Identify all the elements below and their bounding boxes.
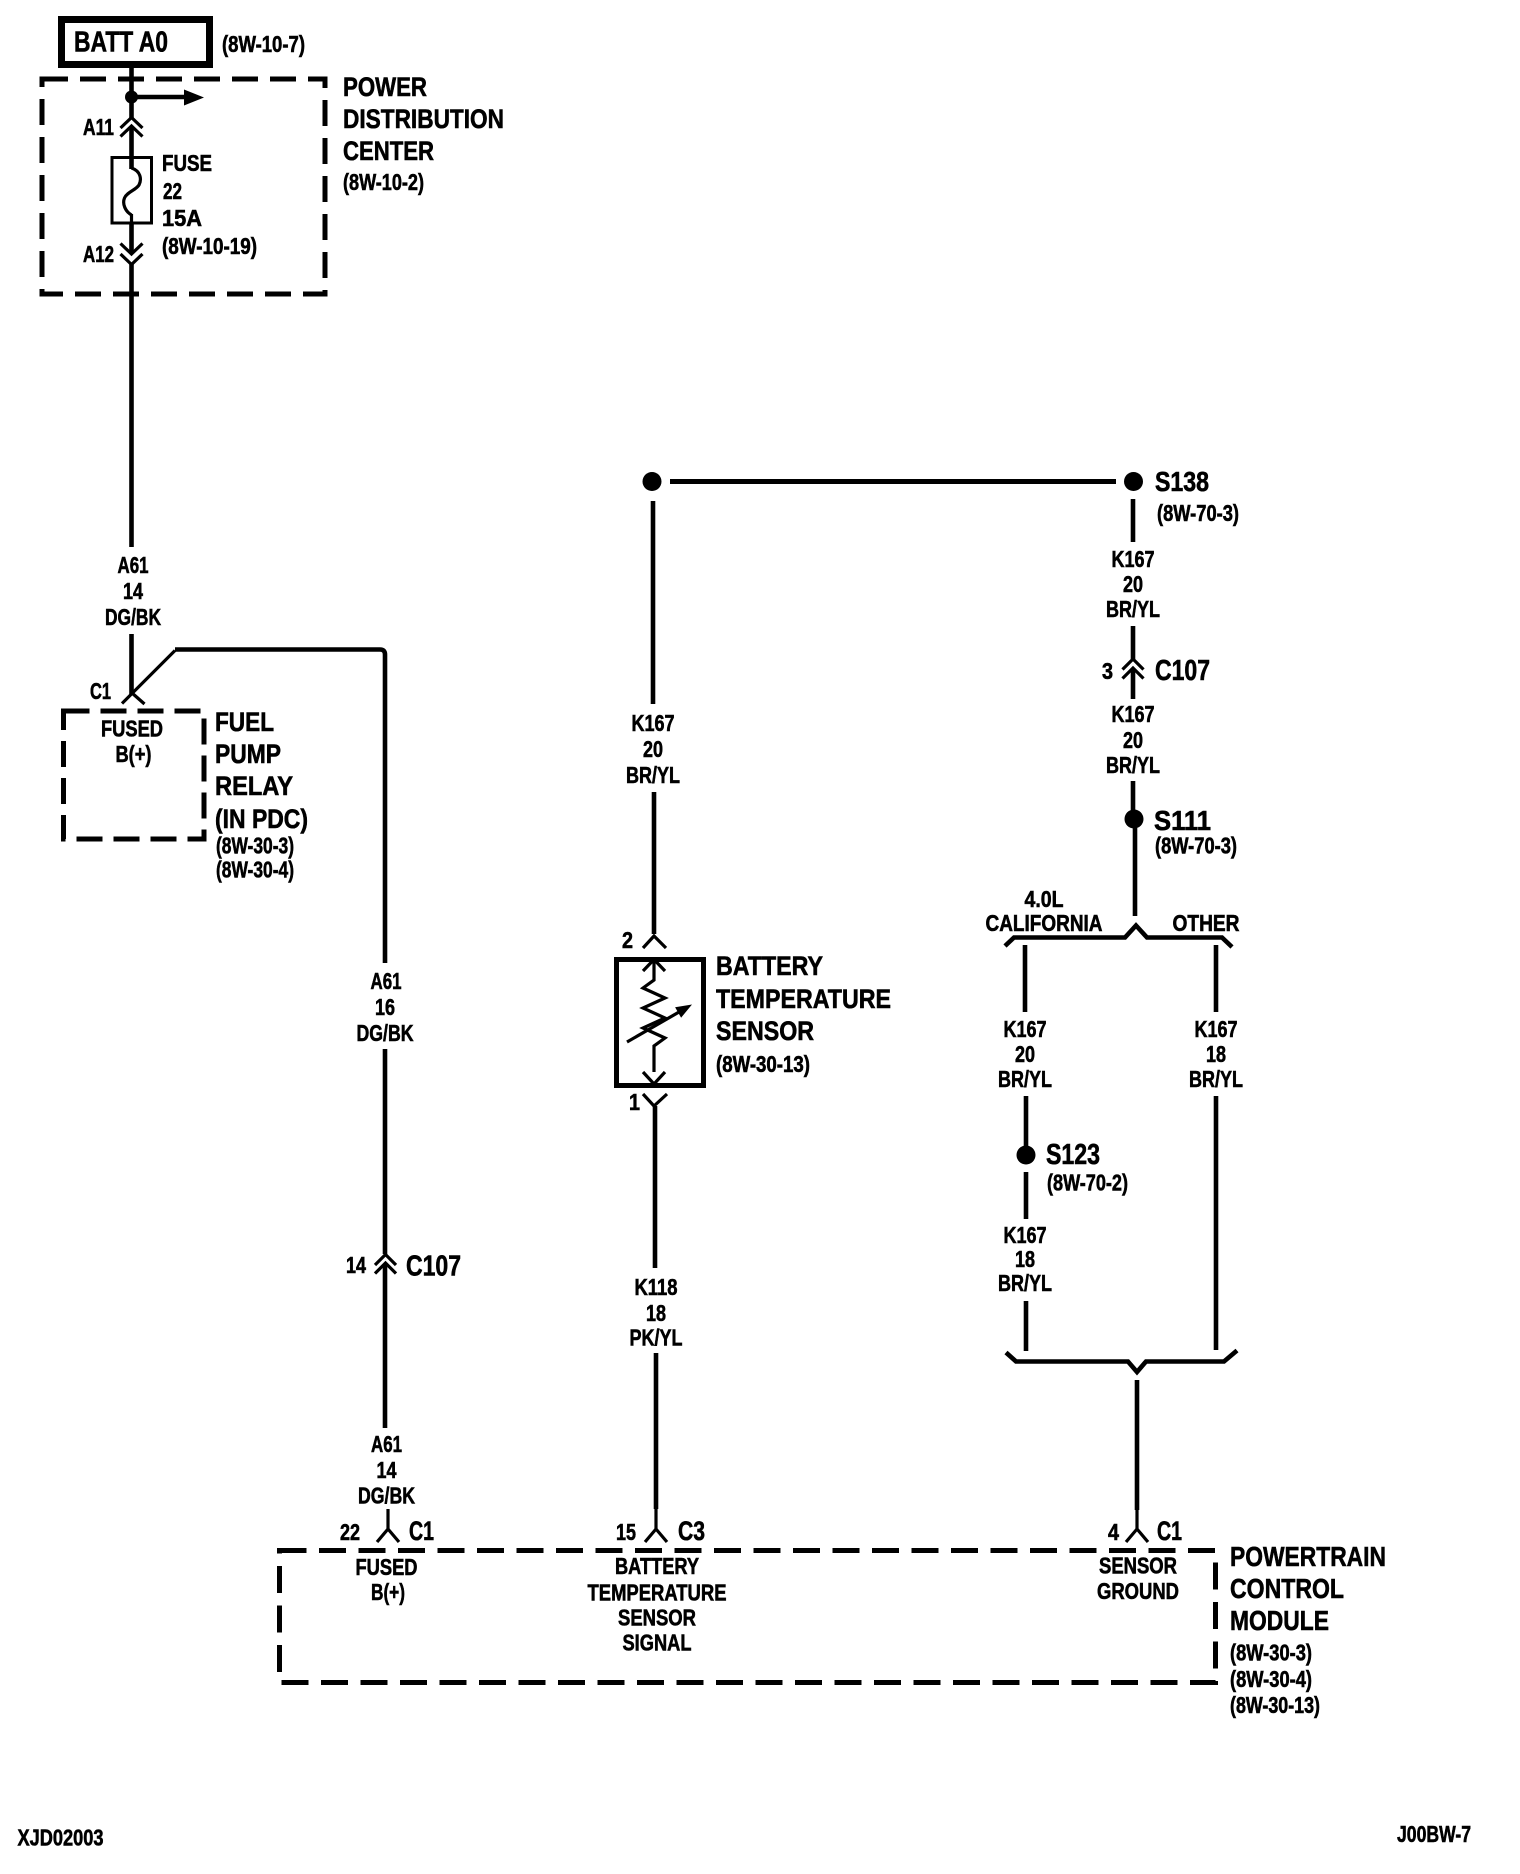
svg-text:C107: C107 (1155, 655, 1210, 687)
svg-text:BR/YL: BR/YL (998, 1270, 1052, 1296)
svg-text:PUMP: PUMP (215, 739, 281, 769)
svg-text:(8W-70-3): (8W-70-3) (1157, 500, 1239, 526)
svg-text:DG/BK: DG/BK (105, 604, 161, 630)
svg-text:K167: K167 (1112, 546, 1155, 572)
svg-text:BATT A0: BATT A0 (74, 27, 168, 59)
svg-text:(8W-30-13): (8W-30-13) (716, 1051, 810, 1077)
svg-text:B(+): B(+) (116, 741, 152, 767)
svg-text:K167: K167 (1004, 1016, 1047, 1042)
svg-text:CALIFORNIA: CALIFORNIA (986, 910, 1103, 936)
svg-text:POWER: POWER (343, 72, 427, 102)
svg-text:SENSOR: SENSOR (1099, 1553, 1177, 1579)
svg-text:(8W-30-13): (8W-30-13) (1230, 1692, 1320, 1718)
svg-text:22: 22 (340, 1519, 360, 1545)
svg-text:SENSOR: SENSOR (618, 1605, 696, 1631)
svg-text:20: 20 (643, 736, 663, 762)
svg-text:(8W-10-19): (8W-10-19) (162, 233, 257, 259)
svg-text:RELAY: RELAY (215, 771, 293, 801)
svg-text:18: 18 (1015, 1246, 1035, 1272)
svg-text:A12: A12 (83, 241, 114, 267)
svg-text:C3: C3 (678, 1516, 705, 1546)
svg-text:OTHER: OTHER (1173, 910, 1240, 936)
svg-text:B(+): B(+) (371, 1579, 405, 1605)
svg-text:20: 20 (1123, 727, 1143, 753)
svg-text:A61: A61 (371, 968, 402, 994)
svg-text:K167: K167 (1195, 1016, 1238, 1042)
svg-text:A61: A61 (118, 552, 149, 578)
svg-text:18: 18 (646, 1300, 666, 1326)
svg-text:K167: K167 (632, 710, 675, 736)
svg-text:A11: A11 (83, 114, 114, 140)
svg-text:CENTER: CENTER (343, 136, 434, 166)
svg-text:SENSOR: SENSOR (716, 1016, 814, 1046)
svg-text:15: 15 (616, 1519, 636, 1545)
svg-text:BR/YL: BR/YL (626, 762, 680, 788)
svg-text:DG/BK: DG/BK (358, 1483, 415, 1509)
svg-text:20: 20 (1123, 571, 1143, 597)
svg-text:S123: S123 (1046, 1139, 1100, 1171)
svg-text:14: 14 (346, 1252, 366, 1278)
svg-text:16: 16 (375, 994, 395, 1020)
svg-text:XJD02003: XJD02003 (18, 1825, 104, 1851)
svg-text:S138: S138 (1155, 466, 1209, 497)
svg-text:FUEL: FUEL (215, 707, 274, 737)
svg-text:C1: C1 (90, 678, 111, 704)
svg-text:18: 18 (1206, 1041, 1226, 1067)
svg-text:20: 20 (1015, 1041, 1035, 1067)
svg-text:(IN PDC): (IN PDC) (215, 804, 308, 834)
svg-text:(8W-70-2): (8W-70-2) (1047, 1170, 1128, 1196)
svg-text:TEMPERATURE: TEMPERATURE (716, 984, 891, 1014)
svg-text:S111: S111 (1154, 805, 1211, 836)
svg-text:3: 3 (1102, 658, 1113, 684)
svg-text:J00BW-7: J00BW-7 (1397, 1821, 1471, 1847)
svg-text:K118: K118 (635, 1274, 678, 1300)
svg-text:14: 14 (377, 1457, 397, 1483)
svg-text:(8W-30-3): (8W-30-3) (1230, 1640, 1312, 1666)
svg-text:DG/BK: DG/BK (357, 1020, 414, 1046)
svg-text:FUSED: FUSED (356, 1554, 418, 1580)
svg-text:22: 22 (163, 178, 182, 204)
svg-text:(8W-30-3): (8W-30-3) (216, 833, 294, 859)
svg-text:BR/YL: BR/YL (1106, 596, 1160, 622)
svg-text:C107: C107 (406, 1251, 461, 1283)
svg-text:K167: K167 (1112, 701, 1155, 727)
svg-text:TEMPERATURE: TEMPERATURE (588, 1580, 727, 1606)
svg-text:(8W-10-2): (8W-10-2) (343, 169, 424, 195)
svg-text:2: 2 (622, 927, 633, 953)
svg-text:BR/YL: BR/YL (1189, 1066, 1243, 1092)
svg-text:BATTERY: BATTERY (615, 1553, 699, 1579)
svg-text:BR/YL: BR/YL (998, 1066, 1052, 1092)
svg-text:15A: 15A (162, 205, 202, 231)
svg-text:4.0L: 4.0L (1025, 886, 1064, 912)
svg-text:CONTROL: CONTROL (1230, 1573, 1344, 1604)
svg-text:GROUND: GROUND (1097, 1578, 1179, 1604)
svg-text:(8W-10-7): (8W-10-7) (222, 31, 305, 57)
svg-text:C1: C1 (1157, 1516, 1182, 1546)
svg-text:(8W-70-3): (8W-70-3) (1155, 833, 1237, 859)
svg-text:FUSE: FUSE (162, 150, 212, 176)
svg-text:POWERTRAIN: POWERTRAIN (1230, 1541, 1386, 1572)
svg-text:(8W-30-4): (8W-30-4) (216, 857, 294, 883)
svg-text:4: 4 (1108, 1519, 1119, 1545)
svg-text:K167: K167 (1004, 1222, 1047, 1248)
svg-text:(8W-30-4): (8W-30-4) (1230, 1666, 1312, 1692)
svg-text:C1: C1 (409, 1516, 434, 1546)
svg-text:MODULE: MODULE (1230, 1605, 1329, 1636)
svg-text:A61: A61 (371, 1431, 402, 1457)
svg-text:14: 14 (123, 578, 143, 604)
svg-text:PK/YL: PK/YL (630, 1325, 683, 1351)
svg-text:1: 1 (629, 1089, 640, 1115)
svg-text:DISTRIBUTION: DISTRIBUTION (343, 104, 504, 134)
svg-text:BATTERY: BATTERY (716, 951, 823, 981)
svg-text:SIGNAL: SIGNAL (623, 1630, 692, 1656)
svg-text:BR/YL: BR/YL (1106, 752, 1160, 778)
svg-text:FUSED: FUSED (101, 716, 163, 742)
